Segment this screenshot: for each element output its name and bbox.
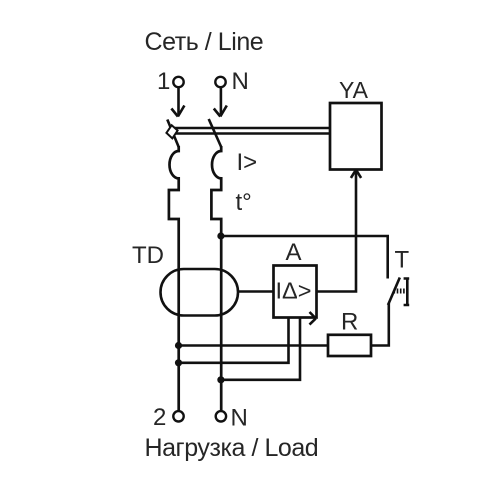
toroidal transformer TD: [161, 269, 239, 316]
terminal 2 circle: [173, 411, 183, 421]
svg-text:Нагрузка / Load: Нагрузка / Load: [145, 434, 319, 462]
svg-text:YA: YA: [339, 77, 369, 103]
test button contact blade: [388, 278, 400, 306]
junction node poleN supply: [217, 376, 224, 383]
wire poleN from terminal with arrow: [214, 88, 227, 117]
pole N magnetic release coil and thermal release: [211, 146, 221, 411]
test button actuator dashed link: [394, 289, 407, 294]
svg-text:1: 1: [157, 68, 170, 95]
wire TD secondary to A: [238, 290, 274, 293]
switch blade pole N: [209, 119, 222, 147]
svg-text:t°: t°: [236, 189, 252, 216]
resistor R box: [328, 335, 371, 356]
wire poleN to A supply pin: [221, 318, 300, 380]
linkage diamond: [166, 125, 177, 138]
svg-text:T: T: [395, 247, 410, 274]
svg-text:N: N: [231, 405, 248, 432]
test button cap: [404, 279, 410, 306]
svg-text:2: 2: [153, 404, 166, 431]
trip output arrow at A corner: [310, 312, 316, 325]
svg-text:Сеть / Line: Сеть / Line: [145, 28, 264, 56]
wire pole1 to resistor: [179, 344, 329, 347]
svg-text:I>: I>: [237, 149, 258, 176]
pole 1 magnetic release coil and thermal release: [169, 146, 179, 411]
junction node pole1 supply: [175, 359, 182, 366]
wire pole1 to A supply pin: [179, 318, 289, 363]
wire pole1 from terminal with arrow: [171, 88, 184, 117]
junction node poleN to test circuit: [217, 232, 224, 239]
svg-text:A: A: [286, 239, 302, 266]
svg-text:TD: TD: [132, 242, 164, 269]
junction node pole1 test: [175, 342, 182, 349]
svg-text:R: R: [341, 309, 358, 336]
terminal N top circle: [215, 77, 225, 87]
mechanical linkage double line to YA: [174, 128, 330, 134]
wire A output to YA with arrow: [317, 170, 362, 292]
terminal N bottom circle: [216, 411, 226, 421]
svg-text:IΔ>: IΔ>: [276, 278, 312, 304]
trip solenoid YA box: [330, 103, 382, 170]
wire test button to resistor: [371, 303, 389, 346]
switch blade pole 1: [167, 120, 178, 148]
amplifier block A: [274, 266, 317, 318]
wire test circuit top: [221, 236, 388, 279]
svg-text:N: N: [232, 68, 249, 95]
terminal 1 circle: [173, 77, 183, 87]
